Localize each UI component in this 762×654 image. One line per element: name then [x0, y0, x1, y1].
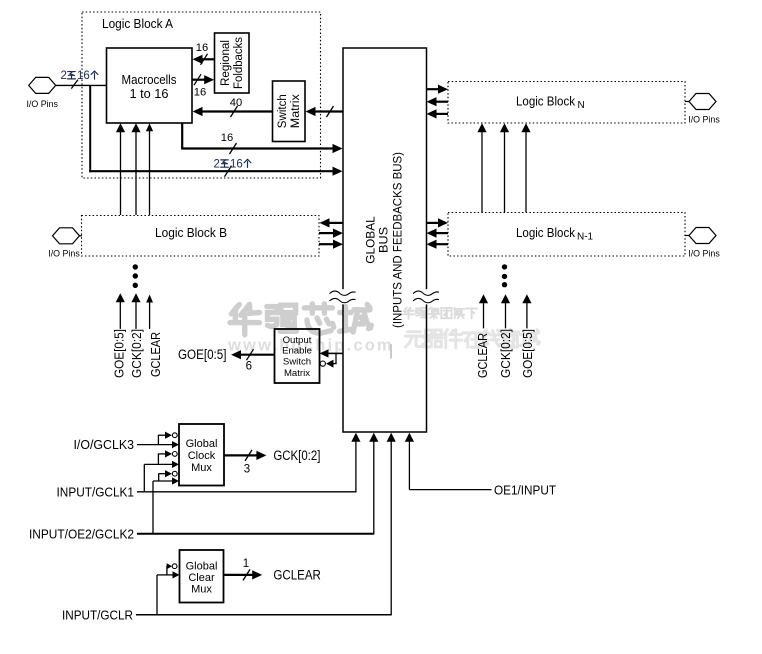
svg-text:16: 16 — [230, 158, 243, 170]
svg-text:SwitchMatrix: SwitchMatrix — [275, 94, 302, 128]
global clear mux box — [180, 550, 224, 603]
arrow GCK into block B — [135, 301, 137, 329]
svg-text:RegionalFoldbacks: RegionalFoldbacks — [218, 37, 245, 89]
svg-text:GOE[0:5]: GOE[0:5] — [178, 347, 227, 362]
I/O pin symbol logic block B — [79, 235, 82, 237]
wire INPUT/GCLK1 riser to mux — [143, 464, 145, 491]
svg-text:16: 16 — [77, 70, 90, 82]
svg-text:2: 2 — [214, 158, 220, 170]
wire GCLK1 inverted branch — [157, 454, 159, 465]
svg-text:Logic Block B: Logic Block B — [155, 225, 227, 240]
bus break symbol left edge — [341, 289, 345, 304]
logic block A dashed outline — [82, 12, 321, 178]
wire INPUT/GCLK1 to bus — [137, 491, 356, 493]
wire logic block B to bus upper — [319, 232, 334, 234]
svg-text:GOE[0:5]: GOE[0:5] — [111, 329, 126, 378]
watermark huaqiang group line — [403, 308, 477, 319]
slash on GCK output — [245, 450, 252, 461]
watermark www.hqchip.com — [227, 337, 394, 355]
I/O pin symbol logic block N — [685, 101, 690, 103]
wire global bus to switch matrix — [315, 110, 344, 112]
svg-text:INPUT/OE2/GCLK2: INPUT/OE2/GCLK2 — [29, 526, 134, 541]
bus break symbol right edge — [424, 289, 428, 304]
svg-text:www.hqchip.com: www.hqchip.com — [227, 337, 394, 355]
regional foldbacks box — [215, 33, 250, 93]
svg-text:Logic Block A: Logic Block A — [102, 16, 173, 31]
slash on GOE output — [247, 349, 254, 360]
svg-text:Clock: Clock — [188, 450, 216, 462]
arrow GOE into block N-1 — [526, 302, 528, 328]
svg-text:GCLEAR: GCLEAR — [273, 568, 321, 583]
OE switch matrix box — [275, 329, 320, 383]
slash on 40 wire — [231, 106, 238, 117]
svg-text:GCK[0:2]: GCK[0:2] — [129, 329, 144, 378]
wire global signals into macrocells — [120, 131, 122, 215]
logic block B dashed outline — [82, 216, 320, 257]
arrow GOE into block B — [119, 301, 121, 329]
logic block N dashed outline — [448, 82, 685, 124]
wire bus to logic block N-1 — [427, 222, 440, 224]
svg-text:Logic Block: Logic Block — [516, 225, 575, 240]
wire INPUT/GCLR riser to mux — [156, 575, 158, 615]
I/O pin symbol top-left — [29, 77, 56, 93]
watermark online store line — [405, 329, 539, 348]
global bus box — [343, 48, 427, 432]
wire INPUT/GCLR to bus — [136, 614, 391, 616]
switch matrix box — [273, 81, 306, 142]
svg-text:1: 1 — [243, 558, 249, 570]
svg-text:16: 16 — [196, 42, 208, 54]
arrow GCLEAR into block B — [149, 302, 151, 329]
wire logic block N to bus lower — [436, 113, 449, 115]
svg-text:N-1: N-1 — [577, 232, 594, 243]
slash on 2to16 bus wire — [225, 166, 232, 177]
svg-text:Switch: Switch — [283, 357, 311, 368]
svg-text:N: N — [578, 100, 585, 111]
svg-text:Clear: Clear — [188, 572, 215, 584]
wire GCLEAR output — [224, 574, 254, 576]
wire GCLK2 inverted branch — [158, 473, 160, 481]
slash on 16 feedback wire — [230, 143, 237, 154]
svg-text:I/O/GCLK3: I/O/GCLK3 — [74, 437, 135, 452]
wire GCLR inverted branch — [166, 566, 168, 575]
wire macrocells to regional foldbacks (16) — [192, 79, 205, 81]
ellipsis dots right — [502, 264, 507, 269]
slash on GCLEAR output — [243, 569, 250, 580]
global clock mux box — [179, 424, 224, 486]
svg-text:2: 2 — [61, 70, 67, 82]
svg-text:Matrix: Matrix — [284, 368, 310, 379]
wire 2to16 feedback to global bus — [89, 170, 334, 172]
wire logic block B to bus lower — [319, 243, 334, 245]
svg-text:Logic Block: Logic Block — [516, 94, 575, 109]
wire OE inverted input stub — [335, 353, 337, 363]
svg-text:40: 40 — [230, 97, 242, 109]
arrow GCK into block N-1 — [505, 302, 507, 328]
arrow GCLEAR into block N-1 — [483, 302, 485, 328]
wire bus to OE switch matrix — [328, 352, 344, 354]
slash on bus-to-switch-matrix wire — [327, 106, 334, 117]
svg-text:Macrocells: Macrocells — [122, 72, 177, 87]
svg-text:INPUT/GCLR: INPUT/GCLR — [62, 607, 133, 622]
svg-text:Mux: Mux — [191, 584, 212, 596]
svg-text:16: 16 — [194, 87, 206, 99]
wire logic block N to bus upper — [436, 101, 449, 103]
svg-text:I/O Pins: I/O Pins — [688, 114, 720, 125]
wire regional foldbacks to macrocells (16) — [202, 58, 215, 60]
wire bus to logic block N — [427, 88, 440, 90]
wire global signals into logic block N — [481, 131, 483, 212]
wire I/O/GCLK3 into mux — [137, 444, 172, 446]
wire I/O/GCLK3 inverted branch — [157, 435, 159, 445]
svg-text:GCLEAR: GCLEAR — [148, 332, 163, 377]
svg-text:OE1/INPUT: OE1/INPUT — [494, 482, 556, 497]
macrocells box — [107, 48, 193, 123]
svg-text:16: 16 — [221, 132, 233, 144]
svg-text:GCK[0:2]: GCK[0:2] — [273, 448, 320, 463]
slash on macrocells-to-foldbacks wire — [194, 74, 201, 85]
wire bus to logic block B — [329, 222, 344, 224]
svg-text:3: 3 — [244, 463, 250, 475]
ellipsis dots left — [133, 264, 138, 269]
svg-text:I/O Pins: I/O Pins — [688, 248, 720, 259]
wire 16 macrocell feedback to global bus — [181, 123, 183, 149]
bus width slash on I/O wire — [71, 80, 78, 89]
wire OE output GOE[0:5] — [240, 354, 275, 356]
logic block N-1 dashed outline — [448, 213, 685, 257]
wire GCK[0:2] output — [224, 454, 257, 456]
wire OE2/GCLK2 riser to mux — [152, 481, 154, 534]
watermark divider bar — [390, 344, 392, 359]
wire switch matrix to macrocells (40) — [202, 110, 273, 112]
svg-text:Global: Global — [186, 438, 218, 450]
wire OE1/INPUT to bus — [408, 434, 410, 490]
wire logic block N-1 to bus lower — [436, 243, 449, 245]
svg-text:Global: Global — [186, 561, 218, 573]
svg-text:Mux: Mux — [191, 462, 212, 474]
wire I/O pins to macrocells with branch — [55, 84, 107, 86]
svg-text:I/O Pins: I/O Pins — [48, 249, 80, 260]
wire INPUT/OE2/GCLK2 to bus — [137, 533, 374, 535]
svg-text:6: 6 — [246, 360, 252, 372]
svg-text:1 to 16: 1 to 16 — [130, 86, 169, 101]
watermark big text huaqiangxincheng — [230, 304, 371, 335]
wire logic block N-1 to bus upper — [436, 232, 449, 234]
slash on foldbacks-to-macrocells wire — [201, 54, 208, 65]
I/O pin symbol logic block N-1 — [685, 235, 690, 237]
svg-text:INPUT/GCLK1: INPUT/GCLK1 — [57, 484, 135, 499]
svg-text:I/O Pins: I/O Pins — [26, 99, 58, 110]
